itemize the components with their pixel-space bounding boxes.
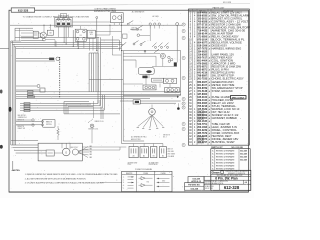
generator terminals T1 T2 T3 [149, 20, 160, 28]
svg-text:2 WIRE: 2 WIRE [143, 173, 148, 175]
wire harness rails [16, 92, 181, 99]
wire bottom of big box [123, 94, 181, 96]
svg-text:GND: GND [162, 181, 165, 183]
wire center horizontal [89, 79, 123, 81]
strip label left [128, 161, 138, 166]
svg-text:261-7533: 261-7533 [197, 79, 207, 81]
svg-text:REMOVE: REMOVE [18, 119, 25, 121]
svg-text:470-3693: 470-3693 [197, 63, 207, 66]
svg-text:1. REMOVE JUMPER W-1 WHEN REM: 1. REMOVE JUMPER W-1 WHEN REMOTE SWITCH … [25, 173, 118, 176]
svg-text:REMOTE: REMOTE [18, 126, 24, 128]
svg-text:TO CRANK ENGINE CONNECT REMOTE: TO CRANK ENGINE CONNECT REMOTE START SWI… [23, 16, 90, 19]
wire left bus 4 [15, 47, 17, 145]
wire top rail [10, 24, 182, 26]
instruction text line [23, 16, 90, 19]
connection diagram box [122, 171, 172, 191]
title block frame [204, 170, 251, 190]
svg-text:354-3239: 354-3239 [197, 129, 207, 132]
svg-text:8: 8 [183, 107, 184, 109]
svg-text:765-6218: 765-6218 [197, 106, 207, 108]
svg-text:8: 8 [183, 38, 184, 40]
contact CR1 [122, 21, 133, 26]
svg-text:K1: K1 [80, 35, 82, 37]
svg-text:REVISED & REDRAWN: REVISED & REDRAWN [216, 155, 235, 158]
wire inner drop [19, 28, 21, 41]
wire big box left side [122, 51, 124, 96]
svg-text:REVISED & REDRAWN: REVISED & REDRAWN [216, 161, 235, 164]
svg-text:STRAP, GROUND: STRAP, GROUND [212, 90, 233, 93]
connection diagram title [135, 168, 152, 171]
sender contacts left [16, 119, 34, 126]
svg-text:162-5238: 162-5238 [197, 142, 203, 144]
fuel solenoid label box [87, 30, 95, 50]
fuse F4 [24, 103, 30, 105]
svg-text:IGNITION COIL: IGNITION COIL [88, 129, 98, 131]
notes heading [13, 170, 20, 172]
remote control box [16, 119, 55, 127]
wire big box inner rail [123, 59, 136, 61]
contact pair mid [133, 41, 146, 46]
wire main vertical bus [121, 14, 123, 95]
terminal B+ [176, 23, 179, 51]
fuse F7 [24, 110, 30, 112]
relay K4 box [152, 78, 164, 82]
svg-text:3 WIRE: 3 WIRE [161, 173, 166, 175]
svg-text:SPEC A ONLY: SPEC A ONLY [232, 96, 245, 99]
flywheel alternator symbol [72, 147, 89, 158]
svg-text:873-0871: 873-0871 [197, 67, 207, 69]
connection cell 2 contents [139, 177, 153, 187]
svg-text:269-4442: 269-4442 [197, 99, 207, 102]
scan blob left 1 [0, 90, 3, 94]
wire left bus 2 [11, 41, 13, 145]
reference stamp box [185, 183, 205, 191]
svg-text:8: 8 [183, 58, 184, 60]
svg-text:REVISED & REDRAWN: REVISED & REDRAWN [216, 149, 235, 152]
wire long verticals right of cluster [98, 37, 119, 110]
wire lower feeders [20, 100, 104, 119]
start switch contacts [150, 25, 168, 48]
title block drawing title [215, 177, 238, 181]
svg-text:180-9144: 180-9144 [197, 32, 207, 35]
wire five bus verticals center [89, 53, 98, 92]
wire left bus 3 [13, 44, 15, 145]
note text block left [18, 115, 27, 121]
svg-text:859-4606: 859-4606 [197, 11, 207, 14]
svg-text:520-7751: 520-7751 [197, 124, 207, 126]
svg-text:Onan: Onan [212, 171, 220, 175]
balloon reference circles at table edge [182, 23, 185, 147]
svg-text:LOW OIL: LOW OIL [131, 27, 137, 29]
approval stamp box [188, 177, 204, 183]
wire big box right side [180, 51, 182, 96]
component dark mark [142, 76, 147, 79]
wire connection box leader [100, 182, 122, 184]
svg-text:471-5138: 471-5138 [197, 90, 207, 93]
svg-text:877-2715: 877-2715 [197, 24, 207, 26]
Onan logo [212, 171, 224, 175]
svg-text:641-4219: 641-4219 [197, 72, 207, 75]
wire nested corners [64, 102, 120, 114]
svg-text:PARTS LIST: PARTS LIST [213, 6, 225, 9]
svg-text:B2: B2 [162, 156, 164, 158]
terminal strip TB1 [129, 147, 138, 158]
svg-text:B1: B1 [153, 156, 155, 158]
fuse F5 [24, 105, 30, 107]
svg-text:FUEL: FUEL [89, 32, 93, 34]
wire bus drop to terminals [122, 95, 163, 143]
see note strip label [71, 147, 79, 149]
dense part number block 2 [197, 136, 203, 144]
svg-text:8: 8 [183, 24, 184, 26]
note 3 [25, 182, 104, 185]
relay K6 box [120, 100, 181, 104]
relay K1 box [33, 31, 38, 38]
engine strip inner wires [54, 143, 70, 153]
wire mid rail upper [122, 50, 181, 52]
title block number row [205, 184, 240, 190]
note 1 [25, 173, 118, 176]
terminal strip TB4 [160, 147, 167, 158]
svg-text:8: 8 [183, 103, 184, 105]
svg-text:NO. 3: NO. 3 [163, 137, 167, 139]
note 2 [25, 177, 86, 180]
wire switch bank drops [64, 27, 78, 49]
svg-text:PRESSURE SW: PRESSURE SW [131, 29, 143, 31]
svg-text:612-328: 612-328 [240, 156, 247, 158]
wire K1 feeder [21, 33, 40, 36]
svg-text:PLUG: PLUG [128, 164, 132, 166]
switch blade lower [120, 42, 126, 47]
svg-text:8: 8 [183, 78, 184, 80]
svg-text:187-8062: 187-8062 [197, 94, 207, 96]
svg-text:CB: CB [49, 33, 51, 35]
svg-text:267-7673: 267-7673 [197, 49, 207, 51]
svg-text:200-1093: 200-1093 [197, 127, 207, 129]
svg-text:880-3027: 880-3027 [197, 82, 207, 84]
connection cell 1 contents [123, 176, 134, 190]
note text block left 2 [18, 126, 26, 130]
svg-text:REVISED & REDRAWN: REVISED & REDRAWN [216, 158, 235, 161]
scan blob left 3 [0, 145, 3, 149]
svg-text:6 Pin. 3W. Plan: 6 Pin. 3W. Plan [215, 177, 238, 181]
wire left bus 1 [10, 41, 12, 145]
svg-text:SWITCH: SWITCH [46, 124, 52, 126]
svg-text:612-328: 612-328 [240, 153, 247, 155]
svg-text:975-3914: 975-3914 [197, 38, 207, 41]
strip label right [149, 161, 159, 166]
contact cluster [168, 56, 173, 62]
parts list rows text [189, 11, 250, 144]
svg-text:171-0850: 171-0850 [197, 36, 207, 38]
parts list header row [189, 9, 233, 12]
lamp DS1 [43, 38, 55, 41]
svg-text:NOTES:: NOTES: [13, 170, 20, 172]
fuse F2 [28, 93, 34, 95]
scan blob left 2 [9, 107, 12, 112]
breaker CB1 box [47, 25, 53, 35]
svg-text:JUMPER W-1: JUMPER W-1 [18, 117, 27, 119]
receptacle J1 box [143, 85, 156, 90]
resistor R2 zigzag [57, 129, 59, 136]
wire ignition drop [92, 101, 94, 143]
ground stub [12, 161, 15, 171]
svg-text:- GND ENG: - GND ENG [167, 151, 174, 153]
wire strip feed upper [11, 140, 38, 142]
svg-text:652-8789: 652-8789 [197, 88, 207, 90]
spark plug label [95, 120, 105, 123]
svg-text:8: 8 [183, 145, 184, 147]
parts list table frame [189, 9, 250, 145]
ammeter M1 [40, 32, 46, 38]
fuse F6 [24, 107, 30, 109]
ignition coil label [88, 129, 98, 131]
company address text [217, 170, 248, 177]
svg-text:REVISED & REDRAWN: REVISED & REDRAWN [216, 152, 235, 155]
contact on rail [144, 50, 146, 52]
svg-text:323-3911: 323-3911 [197, 18, 207, 20]
generator G symbol [62, 148, 70, 156]
relay K5 box with contacts [163, 78, 176, 83]
switch bank S1 [55, 14, 73, 38]
svg-text:612-328: 612-328 [224, 185, 240, 190]
relay coil K3 [160, 53, 165, 58]
svg-text:BUSHING, SNAP: BUSHING, SNAP [212, 140, 235, 144]
choke heater block [123, 34, 128, 38]
svg-text:651-4404: 651-4404 [197, 60, 207, 63]
wire bank to choke [73, 21, 111, 23]
svg-text:8: 8 [183, 129, 184, 131]
svg-text:718-4433: 718-4433 [197, 29, 207, 32]
svg-text:GROMMET, RUBBER: GROMMET, RUBBER [212, 117, 237, 120]
svg-text:258-3211: 258-3211 [197, 119, 203, 121]
svg-text:REMOTE: REMOTE [46, 122, 52, 124]
svg-text:818-1269: 818-1269 [197, 46, 207, 48]
svg-text:REMOTE: REMOTE [126, 173, 132, 175]
see note label [163, 135, 170, 139]
svg-text:798-8897: 798-8897 [197, 76, 207, 78]
border frame [0, 10, 249, 192]
svg-text:FW DWG NO.: FW DWG NO. [188, 185, 200, 187]
title text control panel [94, 8, 117, 13]
svg-text:532-9871: 532-9871 [197, 70, 207, 72]
drawing number box top-left [11, 8, 35, 12]
svg-text:645-2160: 645-2160 [197, 96, 207, 99]
dense part number block [197, 110, 203, 121]
field label [131, 136, 147, 141]
highlighted model box in table [231, 96, 247, 100]
svg-text:SEE NOTE: SEE NOTE [163, 135, 170, 137]
wire clutter upper-left [15, 25, 122, 51]
svg-text:2. ALL SWITCHES SHOWN WITH CI: 2. ALL SWITCHES SHOWN WITH CIRCUIT IN DE… [25, 177, 86, 180]
svg-text:961-8417: 961-8417 [197, 84, 207, 87]
fuse F1 [28, 91, 34, 93]
wire strip to terminals [82, 144, 163, 151]
svg-text:8: 8 [183, 31, 184, 33]
resistor R1 block [16, 57, 60, 61]
wire vertical k14 [96, 17, 98, 51]
svg-text:316-9392: 316-9392 [197, 55, 207, 57]
title block subtitle [205, 180, 248, 185]
svg-text:8: 8 [183, 99, 184, 101]
sender unit [16, 85, 45, 93]
svg-text:REVISED & REDRAWN: REVISED & REDRAWN [216, 164, 235, 167]
revision table lower right [211, 149, 250, 171]
wire strip feeders [11, 145, 46, 153]
time delay relay TD1 [138, 68, 154, 75]
big box internal rails [123, 51, 177, 88]
svg-text:612-328: 612-328 [18, 8, 29, 12]
mechanical linkage dashed [59, 57, 61, 98]
contact CR3 [137, 34, 150, 37]
generator field wye symbol [137, 105, 165, 130]
wire inner top-left [15, 28, 33, 41]
terminal strip TB2 [140, 147, 148, 158]
switch blade rail [154, 49, 159, 53]
terminal dot [177, 103, 180, 110]
terminal legend list [167, 147, 175, 158]
svg-text:612-328: 612-328 [191, 188, 199, 190]
choke assembly box [111, 13, 124, 26]
wire relay to bus [95, 25, 121, 55]
svg-text:+: + [157, 20, 158, 22]
plug P1 box [165, 87, 180, 92]
svg-text:3. ON UNITS EQUIPPED WITH ALL: 3. ON UNITS EQUIPPED WITH ALL COMPONENTS… [25, 182, 104, 185]
mid text label [131, 27, 143, 31]
terminal strip TB3 [151, 147, 157, 158]
rectifier block dark [174, 62, 177, 66]
paper edge smear [30, 4, 250, 6]
svg-text:+: + [152, 20, 153, 22]
svg-text:385-7679: 385-7679 [197, 133, 207, 135]
svg-text:G: G [65, 151, 67, 154]
wire mid rail [15, 36, 99, 38]
svg-text:765-9028: 765-9028 [197, 21, 207, 23]
wire cluster feeders [11, 41, 123, 49]
svg-text:612-328: 612-328 [240, 150, 247, 152]
svg-text:HARNESS, WIRING ENG: HARNESS, WIRING ENG [212, 48, 242, 51]
start solenoid K2 [75, 26, 86, 48]
svg-text:SOL: SOL [90, 34, 93, 36]
fuse F3 [28, 96, 35, 98]
oil pressure sender box [46, 150, 54, 156]
svg-text:505-7617: 505-7617 [197, 58, 207, 60]
svg-text:954-6077: 954-6077 [197, 41, 207, 44]
ray labels [90, 145, 93, 159]
svg-text:SEE NOTE 1: SEE NOTE 1 [18, 115, 27, 117]
svg-text:8: 8 [183, 124, 184, 126]
svg-text:334-0625: 334-0625 [197, 51, 207, 54]
wire resistor drop [57, 126, 59, 140]
svg-text:858-9035: 858-9035 [197, 15, 207, 17]
svg-text:652-3395: 652-3395 [197, 103, 207, 105]
parts list footer band [211, 145, 250, 149]
connection cell 3 contents [157, 178, 170, 187]
engine monitor box [38, 143, 82, 161]
contact CR2 [130, 26, 142, 31]
ignition points switch [88, 119, 94, 128]
svg-text:TB1: TB1 [147, 181, 150, 183]
